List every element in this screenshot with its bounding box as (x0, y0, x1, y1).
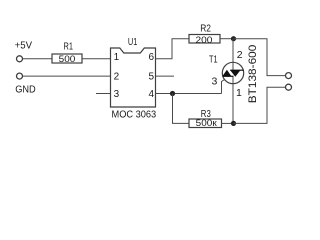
wire node pin4 down to R3 (173, 94, 190, 124)
svg-text:MOC 3063: MOC 3063 (112, 109, 157, 121)
terminal GND (17, 73, 23, 79)
svg-text:5: 5 (148, 71, 154, 82)
wire U1 pin 6 up to R2 (156, 39, 190, 59)
wire T1 MT2 lead (232, 39, 234, 70)
transistor T1 triac (222, 62, 244, 83)
svg-text:3: 3 (212, 75, 218, 87)
wire U1 pin 4 to T1 gate (156, 93, 222, 95)
svg-text:BT138-600: BT138-600 (247, 45, 259, 104)
junction node pin 4 (170, 91, 175, 96)
wire R2 to node MT2 (220, 38, 234, 40)
wire T1 gate riser (222, 80, 225, 94)
svg-text:2: 2 (114, 71, 120, 82)
resistor R3 (189, 108, 222, 129)
wire U1 pin 3 stub (96, 93, 111, 95)
svg-text:T1: T1 (209, 54, 218, 66)
wire bottom node to output terminal (234, 87, 286, 123)
svg-text:1: 1 (236, 87, 242, 99)
IC U1 optocoupler MOC 3063 (111, 36, 157, 121)
svg-text:1: 1 (114, 52, 120, 63)
svg-text:2: 2 (237, 49, 243, 61)
wire GND terminal to U1 pin 2 (23, 75, 111, 77)
resistor R2 (189, 23, 220, 46)
terminal output bottom (286, 84, 292, 90)
wire +5V terminal to R1 (23, 58, 52, 60)
svg-text:4: 4 (148, 89, 154, 100)
wire T1 MT1 lead (232, 77, 234, 124)
junction node top (231, 36, 236, 41)
wire top node to output terminal (234, 39, 286, 76)
svg-text:500: 500 (59, 54, 76, 65)
svg-text:GND: GND (15, 84, 36, 96)
svg-text:R3: R3 (201, 108, 211, 120)
svg-text:U1: U1 (128, 36, 138, 48)
svg-text:+5V: +5V (15, 40, 32, 52)
svg-text:200: 200 (196, 35, 213, 46)
resistor R1 (52, 40, 82, 65)
wire U1 pin 5 stub (156, 75, 175, 77)
wire R3 to bottom node (222, 122, 234, 124)
junction node bottom (231, 121, 236, 126)
wire R1 to U1 pin 1 (82, 58, 111, 60)
svg-text:R2: R2 (200, 23, 211, 35)
svg-text:6: 6 (148, 52, 154, 63)
svg-text:3: 3 (114, 89, 120, 100)
terminal output top (286, 73, 292, 79)
svg-text:R1: R1 (64, 40, 74, 52)
terminal +5V (17, 56, 23, 62)
